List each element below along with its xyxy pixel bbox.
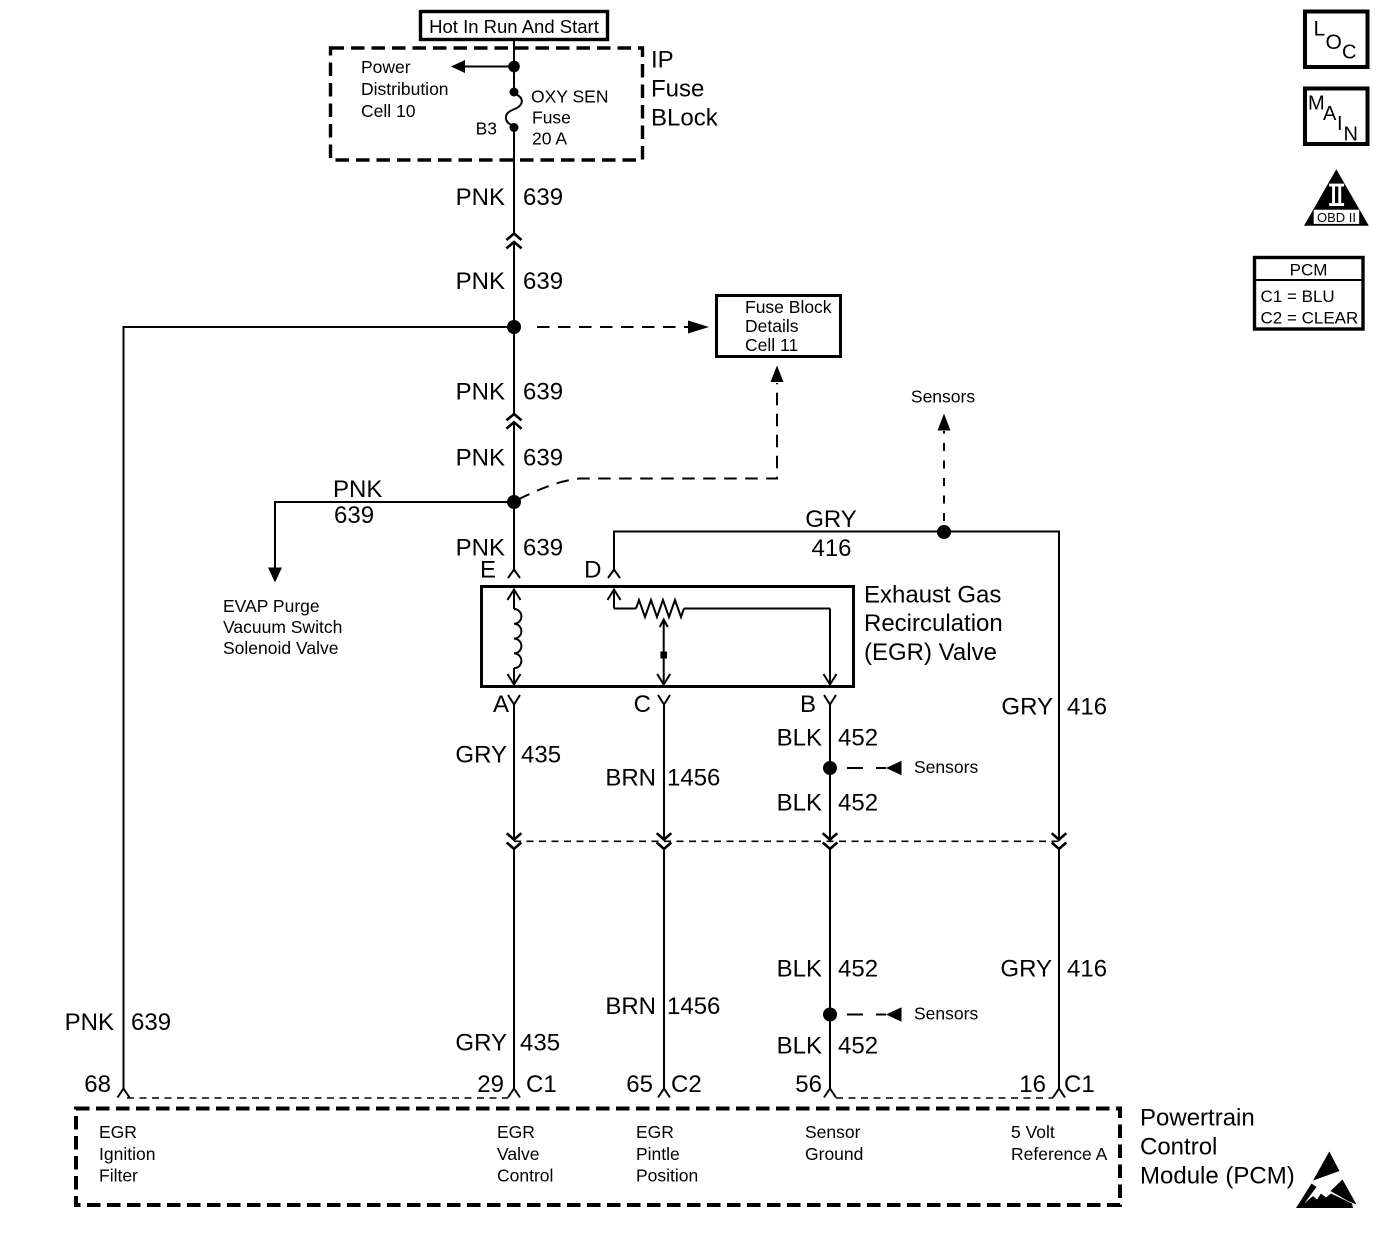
svg-text:639: 639 (334, 502, 374, 529)
svg-text:O: O (1326, 31, 1342, 54)
svg-text:Pintle: Pintle (636, 1144, 680, 1164)
svg-text:PNK: PNK (333, 476, 382, 503)
wire: branch to Power Distribution (arrow left) (451, 60, 514, 73)
svg-text:1456: 1456 (667, 993, 720, 1020)
svg-text:GRY: GRY (1001, 694, 1053, 721)
harness pass-through: dashed line with chevrons (507, 833, 1067, 849)
label: Exhaust Gas Recirculation (EGR) Valve (864, 582, 1003, 666)
svg-text:Reference A: Reference A (1011, 1144, 1108, 1164)
fuse: OXY SEN Fuse 20 A (506, 88, 522, 133)
svg-text:Vacuum Switch: Vacuum Switch (223, 617, 342, 637)
svg-text:E: E (480, 557, 496, 584)
junction: GRY 416 node to sensors (937, 525, 951, 539)
node: EGR Valve Control (PCM internal) (497, 1122, 553, 1186)
svg-text:Module (PCM): Module (PCM) (1140, 1163, 1295, 1190)
svg-text:BLK: BLK (777, 956, 822, 983)
svg-text:Exhaust Gas: Exhaust Gas (864, 582, 1001, 609)
svg-text:Ground: Ground (805, 1144, 863, 1164)
wire: BLK 452 from pin B to PCM pin 56 (824, 705, 836, 1098)
svg-text:Control: Control (497, 1166, 553, 1186)
svg-text:C: C (1342, 42, 1356, 64)
legend icon: OBD II triangle (1304, 169, 1369, 225)
svg-text:Powertrain: Powertrain (1140, 1105, 1255, 1132)
svg-text:68: 68 (84, 1071, 111, 1098)
junction: BLK 452 splice to sensors (lower) (823, 1004, 978, 1024)
label: GRY 435 (upper) (455, 742, 561, 769)
svg-text:452: 452 (838, 956, 878, 983)
svg-text:BLK: BLK (777, 725, 822, 752)
svg-text:EVAP Purge: EVAP Purge (223, 596, 320, 616)
svg-text:Sensor: Sensor (805, 1122, 861, 1142)
svg-text:C: C (634, 691, 651, 718)
svg-text:Control: Control (1140, 1134, 1217, 1161)
svg-text:Fuse Block: Fuse Block (745, 297, 832, 317)
svg-text:N: N (1344, 124, 1358, 146)
svg-text:20 A: 20 A (532, 129, 567, 149)
svg-text:416: 416 (811, 535, 851, 562)
wire: PNK 639 branch to PCM pin 68 (left vertical run) (118, 327, 515, 1098)
wire continuation marks (double chevron) (506, 234, 521, 249)
svg-text:BLK: BLK (777, 790, 822, 817)
pin C of EGR valve (634, 691, 670, 718)
svg-text:Solenoid Valve: Solenoid Valve (223, 638, 338, 658)
svg-text:639: 639 (523, 184, 563, 211)
svg-text:Cell 11: Cell 11 (745, 335, 798, 355)
svg-text:D: D (584, 557, 601, 584)
svg-text:1456: 1456 (667, 765, 720, 792)
svg-text:Fuse: Fuse (532, 108, 571, 128)
svg-text:PCM: PCM (1290, 261, 1328, 280)
label: PNK 639 (segment 5) (456, 535, 563, 562)
label: GRY 435 (lower run) (455, 1030, 560, 1057)
potentiometer wiper (pin C) (657, 620, 670, 685)
label: GRY 416 (lower run) (1000, 956, 1107, 983)
svg-text:C2 = CLEAR: C2 = CLEAR (1261, 309, 1359, 328)
node: Fuse Block Details Cell 11 box (717, 296, 841, 357)
svg-text:GRY: GRY (805, 506, 857, 533)
svg-text:I: I (1337, 113, 1343, 135)
label: GRY 416 (right wire upper) (1001, 694, 1107, 721)
svg-text:16: 16 (1019, 1071, 1046, 1098)
node: Sensor Ground (PCM internal) (805, 1122, 863, 1164)
svg-text:OXY SEN: OXY SEN (531, 87, 609, 107)
svg-text:C1: C1 (526, 1071, 557, 1098)
svg-text:435: 435 (520, 1030, 560, 1057)
label: PNK 639 (segment 4) (456, 445, 563, 472)
svg-text:Cell 10: Cell 10 (361, 101, 416, 121)
svg-text:EGR: EGR (497, 1122, 535, 1142)
svg-text:639: 639 (131, 1009, 171, 1036)
wire: PNK 639 main vertical from fuse to EGR valve pin E (513, 128, 515, 234)
svg-text:C1: C1 (1064, 1071, 1095, 1098)
svg-text:435: 435 (521, 742, 561, 769)
svg-text:A: A (1323, 103, 1337, 125)
svg-text:29: 29 (477, 1071, 504, 1098)
svg-text:Ignition: Ignition (99, 1144, 155, 1164)
pin B of EGR valve (800, 691, 836, 718)
reference arrow: dashed to Fuse Block Details (537, 321, 709, 334)
IP Fuse Block (dashed enclosure) (331, 47, 719, 161)
junction: BLK 452 splice to sensors (upper) (823, 757, 978, 777)
svg-text:(EGR) Valve: (EGR) Valve (864, 639, 997, 666)
legend icon: LOC box (1305, 12, 1368, 68)
label: Power Distribution Cell 10 (361, 57, 449, 121)
label: PNK 639 (left wire at PCM) (65, 1009, 171, 1036)
wire: GRY 435 from pin A to PCM pin 29 (508, 705, 520, 1098)
svg-text:Sensors: Sensors (914, 1004, 978, 1024)
svg-text:A: A (493, 691, 509, 718)
reference arrow: dashed from junction up to Fuse Block Details (518, 366, 784, 500)
pin 65 / connector C2 of PCM (626, 1071, 701, 1098)
svg-text:Power: Power (361, 57, 411, 77)
svg-text:Distribution: Distribution (361, 79, 449, 99)
svg-text:639: 639 (523, 535, 563, 562)
label: BLK 452 (lower run lower) (777, 1033, 878, 1060)
svg-text:C1 = BLU: C1 = BLU (1261, 287, 1335, 306)
svg-text:PNK: PNK (456, 379, 505, 406)
svg-text:Valve: Valve (497, 1144, 539, 1164)
svg-text:PNK: PNK (65, 1009, 114, 1036)
svg-text:EGR: EGR (99, 1122, 137, 1142)
svg-text:BLock: BLock (651, 105, 719, 132)
svg-text:65: 65 (626, 1071, 653, 1098)
legend: PCM connector color table (1255, 258, 1364, 330)
pin A of EGR valve (493, 691, 520, 718)
node: 5 Volt Reference A (PCM internal) (1011, 1122, 1108, 1164)
pin E of EGR valve (480, 557, 520, 584)
junction: feed node to Power Distribution (508, 61, 520, 73)
svg-text:Filter: Filter (99, 1166, 138, 1186)
svg-text:416: 416 (1067, 694, 1107, 721)
svg-text:Position: Position (636, 1166, 698, 1186)
svg-text:Fuse: Fuse (651, 76, 704, 103)
svg-text:BLK: BLK (777, 1033, 822, 1060)
svg-text:639: 639 (523, 268, 563, 295)
svg-text:GRY: GRY (455, 742, 507, 769)
svg-text:Details: Details (745, 316, 799, 336)
pin D of EGR valve (584, 557, 620, 584)
label: PNK 639 (segment 2) (456, 268, 563, 295)
legend icon: ESD-sensitive device symbol (1296, 1152, 1357, 1209)
potentiometer resistor inside EGR valve (pin D to pin B) (608, 590, 837, 685)
label: PNK 639 on EVAP branch (333, 476, 382, 529)
svg-text:EGR: EGR (636, 1122, 674, 1142)
value label: OXY SEN Fuse 20 A (531, 87, 609, 149)
label: BLK 452 (lower run upper) (777, 956, 878, 983)
svg-text:639: 639 (523, 445, 563, 472)
svg-text:C2: C2 (671, 1071, 702, 1098)
label: BLK 452 (below splice) (777, 790, 878, 817)
svg-text:639: 639 (523, 379, 563, 406)
junction: node to PCM pin 68 branch (507, 320, 521, 334)
label: PNK 639 (segment 1) (456, 184, 563, 211)
node: EGR Ignition Filter (PCM internal) (99, 1122, 155, 1186)
node: Hot In Run And Start power feed box (421, 12, 608, 40)
label: PNK 639 (segment 3) (456, 379, 563, 406)
svg-text:GRY: GRY (455, 1030, 507, 1057)
label: GRY 416 above wire (805, 506, 857, 562)
svg-text:452: 452 (838, 790, 878, 817)
svg-text:5 Volt: 5 Volt (1011, 1122, 1055, 1142)
wire: feed from Hot box into fuse block (513, 40, 515, 93)
wire continuation marks (double chevron) (506, 414, 521, 429)
svg-text:Sensors: Sensors (911, 387, 975, 407)
wire: BRN 1456 from pin C to PCM pin 65 (658, 705, 670, 1098)
svg-text:B3: B3 (476, 119, 497, 139)
svg-text:L: L (1314, 18, 1326, 41)
svg-text:BRN: BRN (605, 993, 656, 1020)
svg-text:BRN: BRN (605, 765, 656, 792)
svg-text:Recirculation: Recirculation (864, 610, 1003, 637)
svg-text:452: 452 (838, 725, 878, 752)
reference arrow: dashed up to Sensors (911, 387, 975, 522)
svg-text:B: B (800, 691, 816, 718)
svg-text:56: 56 (795, 1071, 822, 1098)
pin 16 / connector C1 of PCM (1019, 1071, 1094, 1098)
connector face: dashed pin line (right span) (836, 1097, 1053, 1099)
Powertrain Control Module PCM (dashed enclosure) (76, 1105, 1295, 1206)
svg-text:OBD II: OBD II (1317, 210, 1356, 225)
node: EGR Pintle Position (PCM internal) (636, 1122, 698, 1186)
svg-text:Hot In Run And Start: Hot In Run And Start (429, 16, 599, 37)
label: BLK 452 (upper) (777, 725, 878, 752)
connector face: dashed pin line (left span) (127, 1097, 508, 1099)
svg-text:PNK: PNK (456, 268, 505, 295)
pin 29 / connector C1 of PCM (477, 1071, 556, 1098)
legend icon: MAIN box (1305, 89, 1368, 146)
junction: node to EVAP Purge solenoid branch (507, 495, 521, 509)
label: EVAP Purge Vacuum Switch Solenoid Valve (223, 596, 342, 658)
label: BRN 1456 (upper) (605, 765, 720, 792)
svg-text:PNK: PNK (456, 184, 505, 211)
solenoid coil inside EGR valve (pin E to pin A) (508, 590, 522, 685)
svg-text:416: 416 (1067, 956, 1107, 983)
wire: PNK 639 branch to EVAP Purge solenoid (268, 502, 514, 583)
EGR valve (Exhaust Gas Recirculation valve) body (482, 587, 854, 687)
svg-text:PNK: PNK (456, 445, 505, 472)
svg-text:GRY: GRY (1000, 956, 1052, 983)
svg-text:Sensors: Sensors (914, 757, 978, 777)
wire: GRY 416 from EGR pin D to PCM pin 16 (614, 532, 1065, 1098)
svg-text:IP: IP (651, 47, 674, 74)
label: BRN 1456 (lower run) (605, 993, 720, 1020)
svg-text:452: 452 (838, 1033, 878, 1060)
